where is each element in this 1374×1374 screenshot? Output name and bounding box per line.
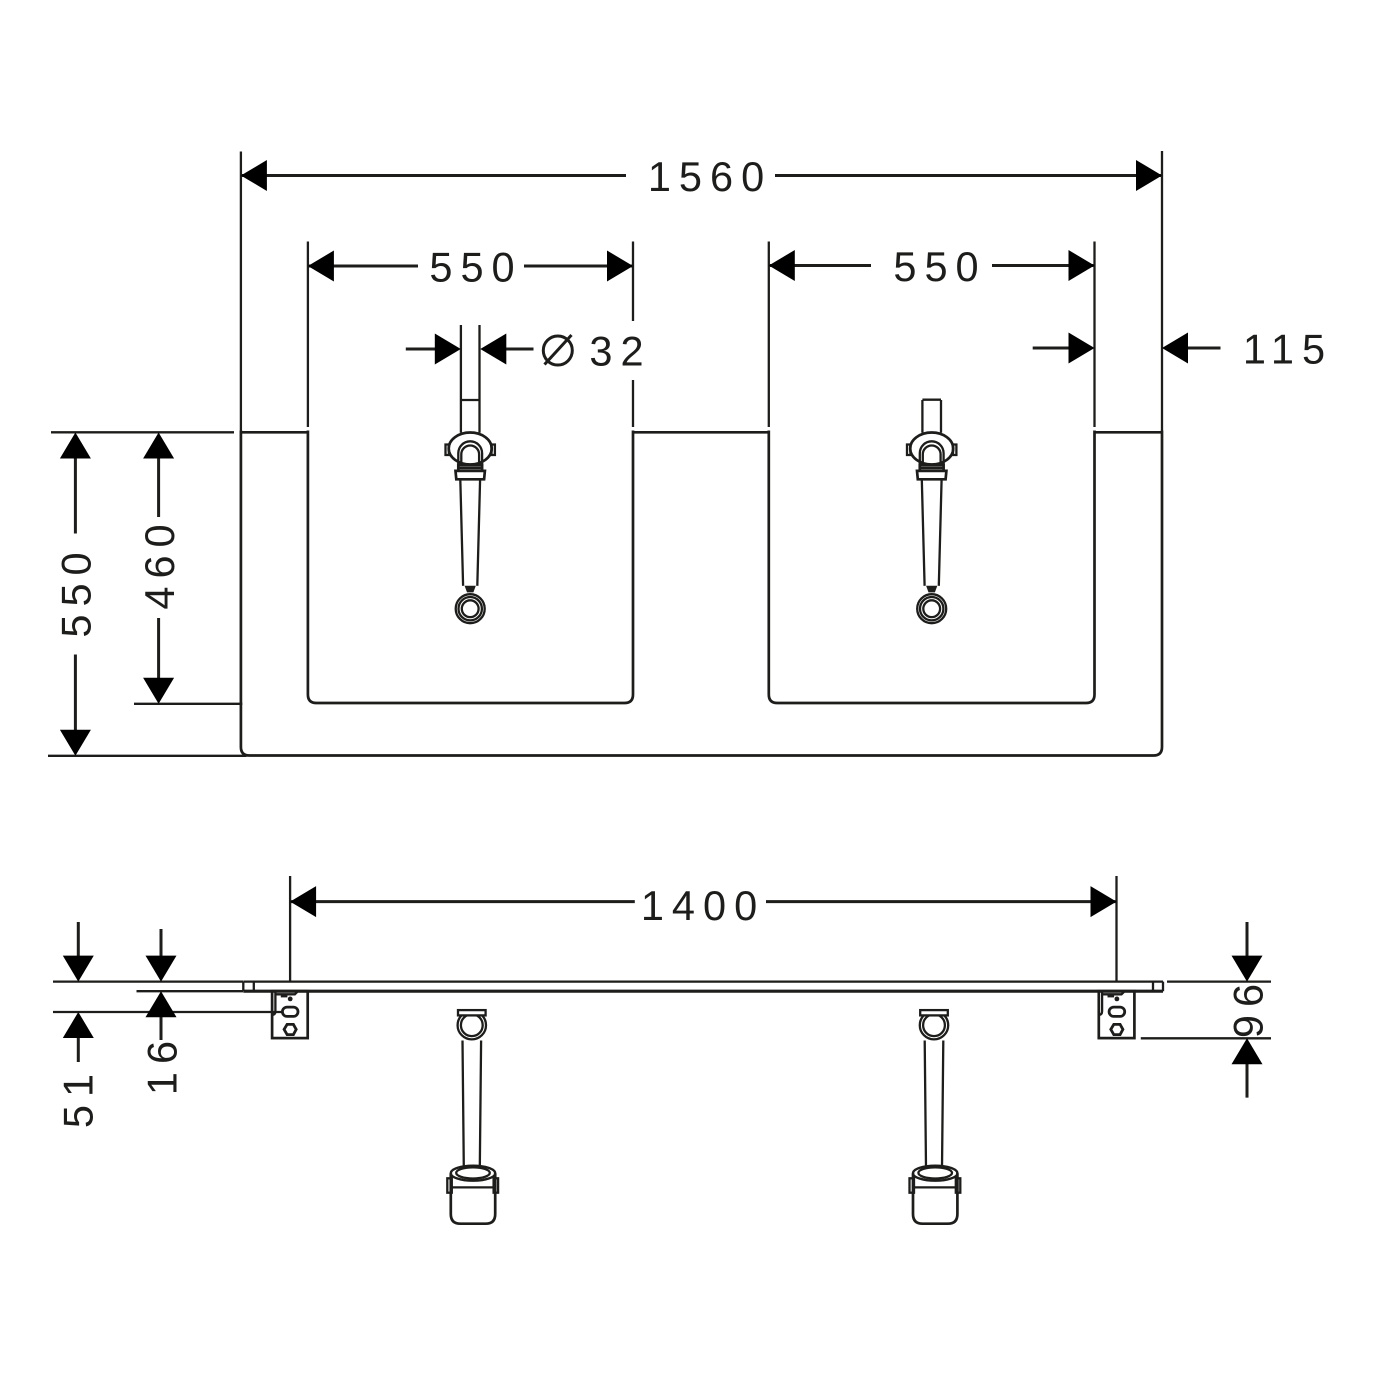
svg-text:16: 16: [138, 1033, 185, 1095]
svg-text:32: 32: [589, 328, 651, 375]
svg-text:460: 460: [136, 516, 183, 609]
svg-text:550: 550: [893, 243, 986, 290]
svg-text:1400: 1400: [641, 882, 765, 929]
svg-text:51: 51: [54, 1066, 101, 1128]
svg-text:1560: 1560: [648, 153, 772, 200]
svg-text:550: 550: [429, 244, 522, 291]
svg-text:96: 96: [1224, 976, 1271, 1038]
svg-text:550: 550: [53, 544, 100, 637]
svg-text:115: 115: [1243, 326, 1333, 373]
